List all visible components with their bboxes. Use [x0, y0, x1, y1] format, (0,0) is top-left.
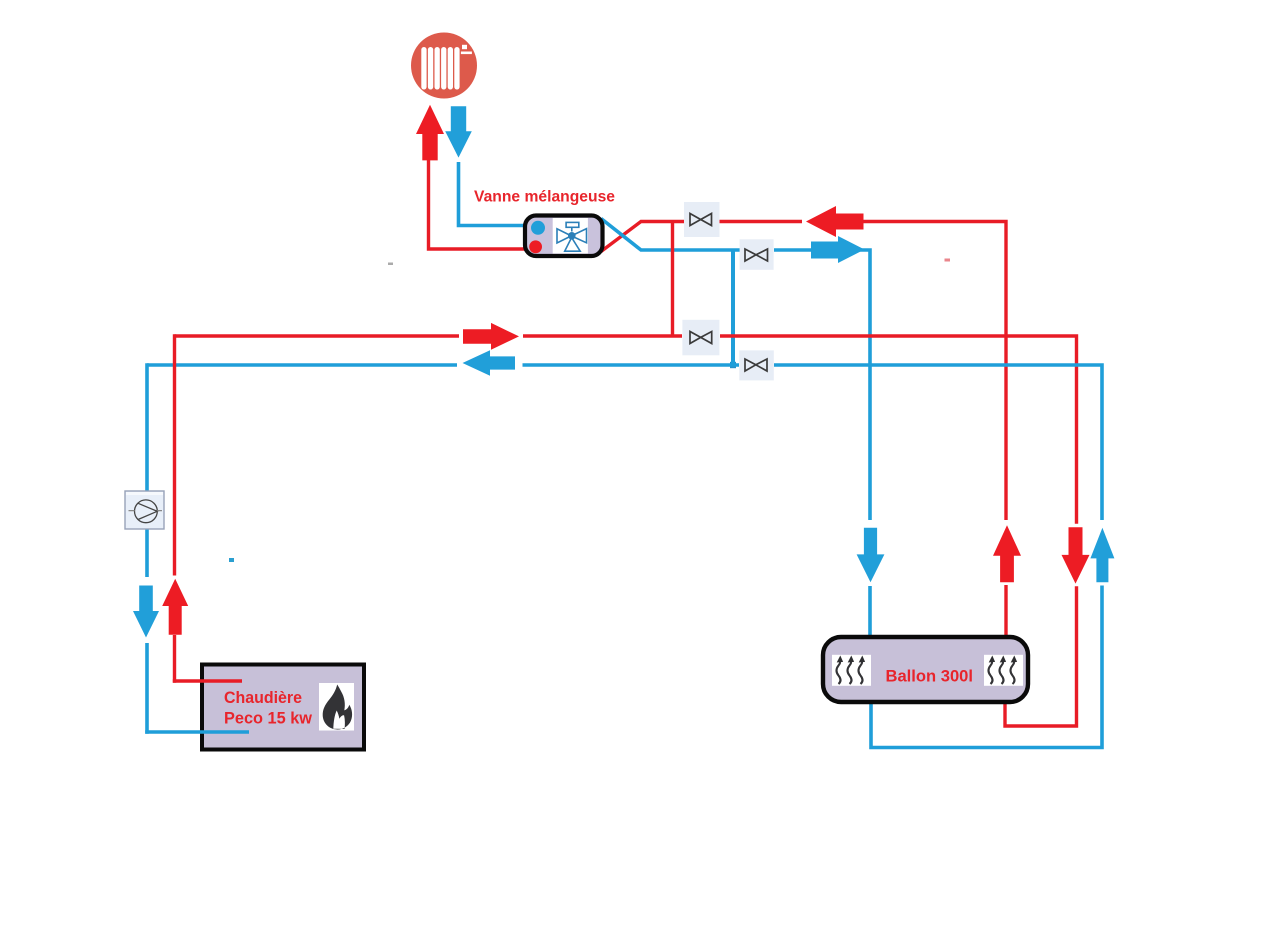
valve V3 square: [682, 320, 719, 356]
wire: blue mid horizontal y=365 arrow to valve V4: [523, 363, 740, 367]
valve V4 square: [739, 350, 774, 380]
wire: blue branch vertical x=733: [731, 249, 735, 367]
arrow blue up on x=1102: [1090, 528, 1114, 583]
mixing valve U1 red port dot: [529, 240, 542, 253]
junction dot blue T x=733: [730, 362, 736, 368]
boiler flame icon: [323, 685, 352, 730]
valve V2 bowtie: [745, 249, 768, 261]
arrow red up on x=1006: [993, 525, 1021, 582]
svg-text:Vanne mélangeuse: Vanne mélangeuse: [474, 188, 615, 205]
wire: red mid horizontal y=336 arrow to valve V3: [523, 334, 682, 337]
wire: red top horizontal y=221.5 arrow to corner x=1006: [863, 222, 1006, 640]
wire: red left vertical x=174.5: [173, 334, 176, 682]
wire: red mid horizontal y=336 left segment: [175, 334, 460, 337]
mixing valve U1 3-way valve glyph: [557, 222, 587, 251]
wire: blue mid horizontal y=365 left segment: [147, 363, 457, 367]
valve V1 square: [684, 202, 720, 237]
valve V1 bowtie: [690, 214, 712, 226]
arrow red right on mid horizontal: [463, 323, 519, 350]
wire: red branch vertical x=672.5: [671, 222, 674, 338]
wire: red diagonal from mixing valve outlet up-right: [601, 222, 684, 252]
wire: blue into boiler y=732: [145, 730, 249, 734]
svg-text:Peco 15 kw: Peco 15 kw: [224, 709, 313, 728]
valve V4 bowtie: [745, 359, 767, 371]
arrow blue down left bottom: [133, 586, 159, 638]
valve V3 bowtie: [690, 332, 712, 344]
arrow blue down on x=870: [857, 528, 885, 583]
svg-text:Chaudière: Chaudière: [224, 688, 302, 707]
radiator icon circle: [411, 33, 477, 99]
arrow red down on x=1076.5: [1062, 527, 1090, 583]
arrow red up left bottom: [162, 579, 188, 635]
Ballon left heat panel: [832, 655, 871, 686]
mixing valve U1 blue port dot: [531, 221, 545, 235]
wire: blue diagonal from mixing valve outlet down-right: [601, 219, 740, 251]
mixing valve U1 body: [525, 216, 603, 257]
boiler flame panel: [319, 683, 354, 731]
Ballon tank body: [823, 637, 1028, 702]
artifact small blue dot: [229, 558, 234, 562]
valve V2 square: [740, 239, 774, 269]
wire: blue top horizontal y=250 valve V2 to corner: [774, 250, 870, 639]
artifact small gray dash: [388, 263, 393, 266]
wire: blue return radiator vertical+horizontal to mixing valve: [459, 162, 526, 226]
svg-text:Ballon 300l: Ballon 300l: [886, 666, 974, 685]
wire: blue left vertical x=147: [145, 363, 149, 734]
arrow blue right on top horizontal: [811, 236, 865, 263]
arrow blue left on mid horizontal: [463, 350, 516, 375]
radiator icon white sections: [421, 45, 472, 90]
wire: red supply radiator vertical+horizontal to mixing valve: [429, 158, 526, 249]
wire: red into boiler y=681: [173, 679, 242, 682]
wire: red mid horizontal y=336 valve V3 to right corner: [720, 336, 1077, 726]
wire: red top horizontal y=221.5 valve V1 to arrow: [720, 220, 803, 223]
arrow red left on top horizontal: [806, 206, 864, 237]
Ballon right wavy arrows: [989, 662, 1015, 685]
boiler box: [202, 665, 364, 750]
Ballon right heat panel: [984, 655, 1023, 686]
arrow red up to radiator: [416, 105, 444, 161]
Ballon left wavy arrows: [837, 662, 863, 685]
pump P1 square: [125, 491, 164, 529]
arrow blue down from radiator: [445, 106, 472, 157]
artifact small red dash: [945, 259, 951, 262]
pump P1 symbol: [129, 500, 163, 523]
wire: blue mid horizontal y=365 valve V4 to right corner: [774, 365, 1102, 748]
